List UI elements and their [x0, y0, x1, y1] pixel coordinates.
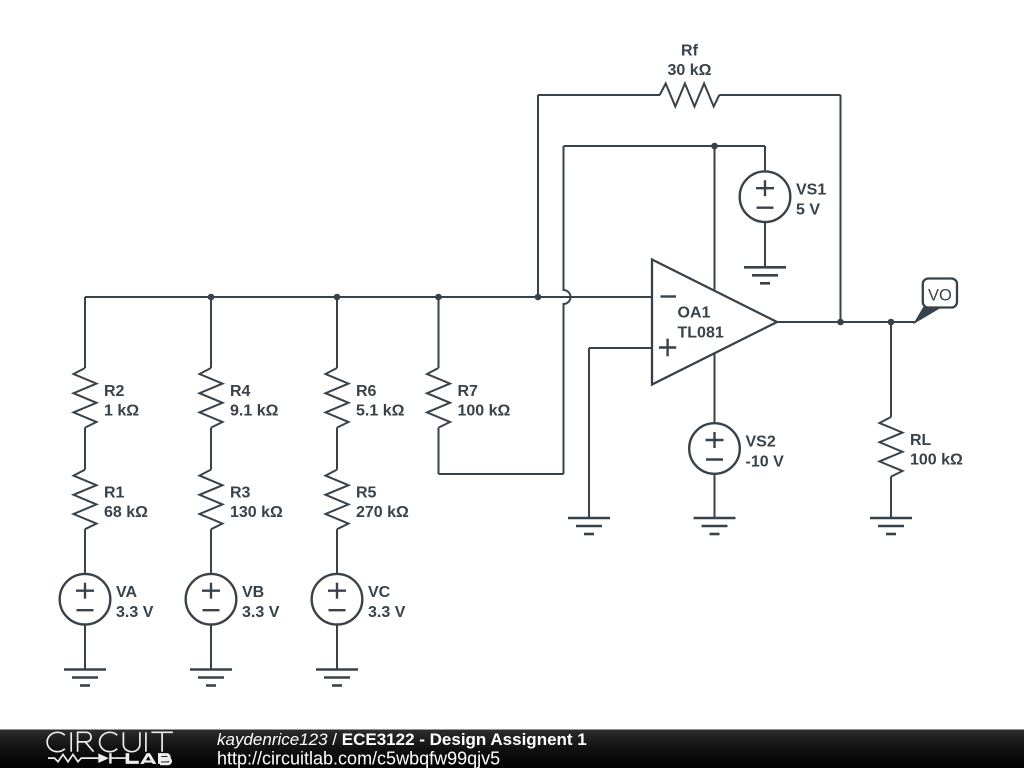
voltage source VB (3.3 V)	[186, 574, 280, 625]
resistor R5 270 kΩ	[326, 470, 410, 530]
svg-text:R6: R6	[356, 383, 377, 400]
svg-text:RL: RL	[910, 432, 932, 449]
wire R1 to VA+	[84, 529, 86, 574]
wire vertical riser x=563.5 with hop over bus	[564, 146, 571, 474]
svg-text:3.3 V: 3.3 V	[368, 604, 406, 621]
wire R4 to R3	[210, 428, 212, 470]
svg-text:R1: R1	[104, 484, 125, 501]
svg-text:9.1 kΩ: 9.1 kΩ	[230, 403, 279, 420]
svg-text:68 kΩ: 68 kΩ	[104, 504, 148, 521]
wire output to RL top	[890, 322, 892, 417]
wire R7 bottom lead	[438, 428, 440, 474]
wire VS1- to ground	[764, 222, 766, 267]
resistor R1 68 kΩ	[74, 470, 149, 530]
svg-text:VO: VO	[928, 287, 952, 305]
wire RL bottom to ground	[890, 477, 892, 518]
wire R5 to VC+	[336, 529, 338, 574]
wire R3 to VB+	[210, 529, 212, 574]
resistor Rf 30 kΩ	[660, 43, 720, 107]
CircuitLab logo	[47, 732, 173, 761]
voltage source VS1 (5 V)	[740, 171, 827, 222]
svg-text:R7: R7	[458, 383, 479, 400]
voltage source VS2 (-10 V)	[689, 423, 784, 474]
svg-text:270 kΩ: 270 kΩ	[356, 504, 409, 521]
junction dot bus/R6	[334, 294, 341, 301]
svg-text:Rf: Rf	[681, 43, 699, 60]
svg-text:VC: VC	[368, 584, 391, 601]
junction dot feedback/bus	[535, 294, 542, 301]
ground (under RL)	[870, 518, 912, 534]
svg-text:1 kΩ: 1 kΩ	[104, 403, 139, 420]
wire VS2- to ground	[714, 474, 716, 518]
op-amp OA1 TL081	[652, 260, 777, 385]
svg-text:OA1: OA1	[678, 305, 711, 322]
resistor R2 1 kΩ	[74, 368, 140, 428]
svg-text:100 kΩ: 100 kΩ	[910, 452, 963, 469]
svg-text:TL081: TL081	[678, 325, 724, 342]
svg-text:VS2: VS2	[746, 434, 776, 451]
wire R2 to R1	[84, 428, 86, 470]
wire feedback left vertical	[537, 95, 539, 297]
svg-text:R4: R4	[230, 383, 251, 400]
ground (under VB)	[190, 670, 232, 686]
ground (under VS1)	[744, 267, 786, 283]
ground (under VS2)	[694, 518, 736, 534]
wire VC- to ground	[336, 625, 338, 670]
wire V- supply pin of OA1 to VS2+	[714, 353, 716, 423]
wire op-amp output	[777, 321, 916, 323]
wire V+ supply pin of OA1	[714, 146, 716, 290]
svg-text:5 V: 5 V	[796, 202, 820, 219]
resistor R6 5.1 kΩ	[326, 368, 405, 428]
ground (under VC)	[316, 670, 358, 686]
svg-text:-10 V: -10 V	[746, 453, 785, 470]
wire VB- to ground	[210, 625, 212, 670]
junction dot rail/V+ pin	[711, 143, 718, 150]
wire R6 to R5	[336, 428, 338, 470]
resistor R3 130 kΩ	[200, 470, 284, 530]
resistor RL 100 kΩ	[880, 417, 964, 477]
wire non-inverting input to ground	[588, 348, 590, 518]
svg-text:R2: R2	[104, 383, 125, 400]
wire VA- to ground	[84, 625, 86, 670]
wire feedback top left	[538, 94, 660, 96]
svg-text:VS1: VS1	[796, 182, 826, 199]
ground (under VA)	[64, 670, 106, 686]
junction dot bus/R4	[208, 294, 215, 301]
svg-text:VB: VB	[242, 584, 264, 601]
wire bus to R7 top	[438, 297, 440, 368]
junction dot output/feedback	[837, 319, 844, 326]
voltage source VC (3.3 V)	[312, 574, 406, 625]
wire rail to VS1+	[764, 146, 766, 172]
junction dot output/RL	[888, 319, 895, 326]
resistor R4 9.1 kΩ	[200, 368, 279, 428]
voltage source VA (3.3 V)	[60, 574, 154, 625]
svg-text:VA: VA	[116, 584, 137, 601]
svg-text:100 kΩ: 100 kΩ	[458, 403, 511, 420]
svg-text:kaydenrice123 / ECE3122 - Desi: kaydenrice123 / ECE3122 - Design Assigne…	[217, 730, 587, 749]
wire feedback right vertical	[840, 95, 842, 322]
wire input bus (summing node) y=297	[85, 296, 652, 298]
wire bus to R6 top	[336, 297, 338, 368]
node VO output flag	[915, 279, 958, 323]
svg-text:130 kΩ: 130 kΩ	[230, 504, 283, 521]
resistor R7 100 kΩ	[427, 368, 511, 428]
wire non-inverting input	[589, 347, 652, 349]
svg-text:R5: R5	[356, 484, 377, 501]
svg-text:3.3 V: 3.3 V	[242, 604, 280, 621]
wire +5V rail y=146	[564, 145, 766, 147]
wire bus to R2 top	[84, 297, 86, 368]
wire R7 bottom horizontal	[439, 473, 564, 475]
junction dot bus/R7	[435, 294, 442, 301]
svg-text:5.1 kΩ: 5.1 kΩ	[356, 403, 405, 420]
ground (non-inverting input)	[568, 518, 610, 534]
svg-text:30 kΩ: 30 kΩ	[668, 62, 712, 79]
svg-text:http://circuitlab.com/c5wbqfw9: http://circuitlab.com/c5wbqfw99qjv5	[217, 749, 500, 768]
wire feedback top right	[719, 94, 840, 96]
svg-text:R3: R3	[230, 484, 251, 501]
svg-text:3.3 V: 3.3 V	[116, 604, 154, 621]
wire bus to R4 top	[210, 297, 212, 368]
